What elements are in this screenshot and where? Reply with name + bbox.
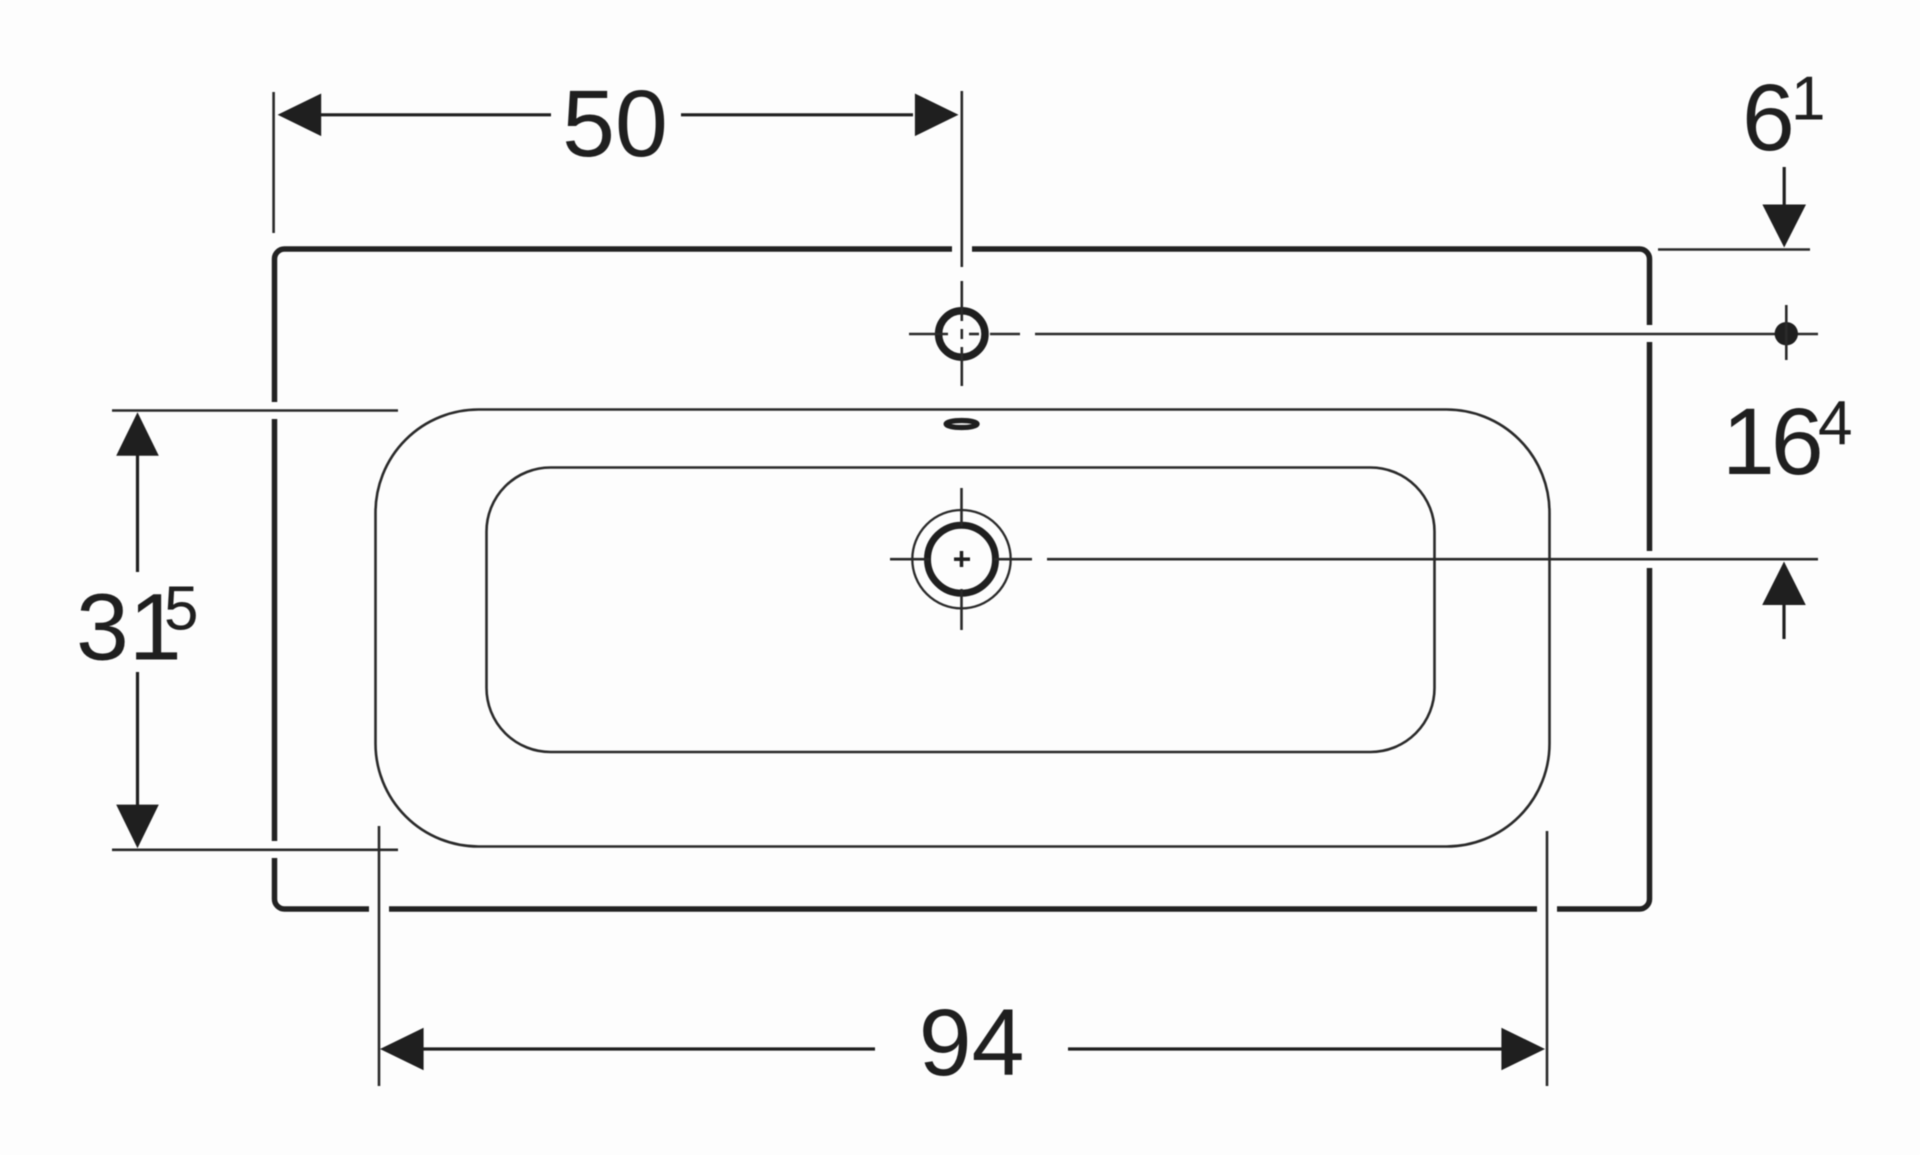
dimension 94: left arrowhead — [380, 1028, 424, 1071]
dimension 16⁴: up arrowhead to drain centerline — [1762, 562, 1806, 606]
drain center cross — [954, 551, 970, 567]
tap hole horizontal centerline — [909, 333, 1818, 336]
dimension 94: right extension line — [1546, 831, 1549, 1086]
drain outer ring — [912, 510, 1010, 608]
dimension 94: right arrowhead — [1501, 1028, 1545, 1071]
drain horizontal centerline — [890, 558, 1818, 561]
white gaps where dimension lines cross outer edge — [275, 249, 1650, 909]
svg-text:16: 16 — [1722, 389, 1820, 495]
dimension 31⁵: top extension line — [112, 409, 398, 412]
dimension 50: left extension line — [272, 92, 275, 233]
dimension 6¹: extension line at rim level — [1658, 248, 1810, 251]
dimension 31⁵: dimension line — [136, 455, 139, 805]
drain vertical centerline — [960, 488, 963, 630]
dimension 16⁴: dot on tap centerline — [1775, 322, 1798, 345]
dimension 6¹: leader line and arrowhead — [1783, 167, 1786, 206]
tap hole vertical centerline — [960, 91, 963, 386]
dimension 50: dimension line — [321, 113, 913, 116]
dimension 50: left arrowhead — [278, 94, 322, 137]
basin bowl rim — [376, 410, 1550, 847]
basin bowl floor — [487, 468, 1435, 753]
svg-text:4: 4 — [1818, 389, 1852, 458]
overflow slot — [946, 421, 977, 428]
dimension 50: right arrowhead — [915, 94, 959, 137]
tap hole — [939, 311, 985, 357]
svg-text:6: 6 — [1742, 65, 1795, 171]
washbasin outer edge — [275, 249, 1650, 909]
dimension 94: dimension line — [423, 1047, 1502, 1050]
drain waste hole — [928, 525, 996, 593]
dimension 94: left extension line — [378, 826, 381, 1086]
svg-text:94: 94 — [919, 990, 1025, 1096]
svg-text:1: 1 — [1791, 65, 1825, 134]
svg-text:5: 5 — [164, 575, 198, 644]
dimension 31⁵: bottom extension line — [112, 848, 398, 851]
dimension 31⁵: top arrowhead — [116, 412, 159, 456]
dimension 31⁵: bottom arrowhead — [116, 805, 159, 849]
svg-text:50: 50 — [562, 71, 668, 177]
